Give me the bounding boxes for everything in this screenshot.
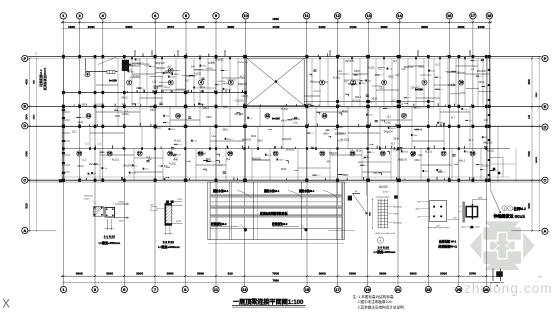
svg-text:QL2: QL2 xyxy=(418,155,423,157)
svg-text:3Ф18: 3Ф18 xyxy=(323,133,329,136)
svg-text:2Ф22: 2Ф22 xyxy=(418,65,424,68)
svg-text:KL7: KL7 xyxy=(240,77,245,79)
svg-text:18: 18 xyxy=(168,152,172,156)
svg-text:2: 2 xyxy=(128,81,130,85)
svg-text:2.图中未注明板厚100.: 2.图中未注明板厚100. xyxy=(358,299,393,304)
svg-text:KL5(1): KL5(1) xyxy=(425,151,432,153)
svg-text:10: 10 xyxy=(243,13,248,18)
svg-text:X: X xyxy=(2,299,10,311)
svg-text:16: 16 xyxy=(108,152,112,156)
svg-text:QL2: QL2 xyxy=(338,71,343,73)
svg-text:26: 26 xyxy=(484,287,489,292)
svg-text:Ф8@2: Ф8@2 xyxy=(173,73,180,76)
svg-text:17: 17 xyxy=(138,152,142,156)
svg-text:柱间M-2: 柱间M-2 xyxy=(514,206,526,211)
svg-text:12: 12 xyxy=(335,13,340,18)
svg-text:L=梁宽+600mm: L=梁宽+600mm xyxy=(158,244,180,249)
svg-text:3000: 3000 xyxy=(106,272,113,276)
svg-text:3900: 3900 xyxy=(379,272,386,276)
svg-text:1830: 1830 xyxy=(68,25,75,29)
svg-text:250x: 250x xyxy=(202,66,206,68)
svg-text:3600: 3600 xyxy=(319,272,326,276)
svg-text:3090: 3090 xyxy=(381,25,388,29)
svg-text:KL5(1): KL5(1) xyxy=(174,141,181,143)
svg-text:4Ф14: 4Ф14 xyxy=(150,109,156,112)
svg-text:4Ф14: 4Ф14 xyxy=(78,121,84,124)
svg-text:60x5: 60x5 xyxy=(515,214,526,219)
svg-text:KL3(2): KL3(2) xyxy=(169,164,176,166)
svg-text:3000: 3000 xyxy=(349,272,356,276)
svg-text:250x500: 250x500 xyxy=(286,149,296,151)
svg-text:KL7: KL7 xyxy=(202,154,207,156)
svg-text:4Ф14: 4Ф14 xyxy=(199,86,205,89)
svg-text:KL5(1): KL5(1) xyxy=(154,128,161,130)
svg-text:15: 15 xyxy=(305,287,310,292)
svg-text:250x: 250x xyxy=(361,83,365,85)
svg-text:Ф8@100: Ф8@100 xyxy=(398,158,408,161)
svg-text:18: 18 xyxy=(471,152,475,156)
svg-text:h=150: h=150 xyxy=(109,78,117,82)
svg-text:KL5(1): KL5(1) xyxy=(384,122,391,124)
svg-text:zhulong.com: zhulong.com xyxy=(464,281,553,296)
svg-text:KL7: KL7 xyxy=(393,61,398,63)
svg-text:台阶配筋 W-1: 台阶配筋 W-1 xyxy=(439,238,457,243)
svg-text:13: 13 xyxy=(366,13,371,18)
svg-text:KL3(2): KL3(2) xyxy=(482,166,489,168)
svg-text:KL5(1): KL5(1) xyxy=(353,100,360,102)
svg-text:2360: 2360 xyxy=(458,25,465,29)
svg-text:Ф8@100: Ф8@100 xyxy=(242,138,252,141)
svg-text:910: 910 xyxy=(228,272,233,276)
svg-text:3Ф18: 3Ф18 xyxy=(82,104,88,107)
svg-text:8: 8 xyxy=(383,81,385,85)
svg-text:Ф8@200: Ф8@200 xyxy=(393,206,403,209)
svg-text:17: 17 xyxy=(471,13,476,18)
svg-text:KL3(2): KL3(2) xyxy=(368,67,375,69)
svg-text:3100: 3100 xyxy=(319,25,326,29)
svg-text:2Ф22: 2Ф22 xyxy=(342,174,348,177)
svg-text:L=梁宽+300mm: L=梁宽+300mm xyxy=(374,249,396,254)
svg-text:KL7: KL7 xyxy=(186,81,191,83)
svg-text:2640: 2640 xyxy=(26,114,29,120)
svg-text:QL2: QL2 xyxy=(223,107,228,109)
svg-text:250x500: 250x500 xyxy=(186,76,196,78)
svg-text:KL3(2): KL3(2) xyxy=(95,105,102,107)
svg-text:KL5(1): KL5(1) xyxy=(122,114,129,116)
svg-text:注: 1.本图标高为结构标高.: 注: 1.本图标高为结构标高. xyxy=(353,294,395,299)
svg-text:5250: 5250 xyxy=(126,25,133,29)
svg-text:Ф8@200: Ф8@200 xyxy=(393,222,403,225)
svg-text:KL7: KL7 xyxy=(469,140,474,142)
svg-text:17: 17 xyxy=(402,114,406,118)
svg-text:KL5(1): KL5(1) xyxy=(112,159,119,161)
svg-text:KL3(2): KL3(2) xyxy=(194,73,201,75)
svg-text:3600: 3600 xyxy=(76,272,83,276)
svg-text:Ф8@1: Ф8@1 xyxy=(390,127,397,130)
svg-text:9: 9 xyxy=(87,72,89,76)
svg-text:E: E xyxy=(544,104,547,109)
svg-text:6: 6 xyxy=(170,69,172,73)
svg-text:250x500: 250x500 xyxy=(89,164,99,166)
svg-text:1-1 5:10: 1-1 5:10 xyxy=(104,234,116,238)
svg-text:4Ф14: 4Ф14 xyxy=(415,207,421,210)
svg-text:QL2: QL2 xyxy=(72,131,77,133)
svg-text:2Ф16: 2Ф16 xyxy=(414,159,420,162)
svg-text:4Ф14: 4Ф14 xyxy=(479,81,485,84)
svg-text:KL7: KL7 xyxy=(344,82,349,84)
svg-text:砼梁做法M-2: 砼梁做法M-2 xyxy=(271,222,288,226)
svg-text:4800: 4800 xyxy=(26,79,29,85)
svg-text:4Ф14: 4Ф14 xyxy=(397,103,403,106)
svg-text:250x500: 250x500 xyxy=(457,73,467,75)
svg-text:3Ф18: 3Ф18 xyxy=(354,70,360,73)
svg-text:22: 22 xyxy=(321,152,325,156)
svg-text:3Ф18: 3Ф18 xyxy=(176,220,182,223)
svg-text:2Ф16: 2Ф16 xyxy=(356,150,362,153)
svg-text:3: 3 xyxy=(170,81,172,85)
svg-text:Ф8@200: Ф8@200 xyxy=(483,141,493,144)
svg-text:3Ф18: 3Ф18 xyxy=(372,97,378,100)
svg-text:2330: 2330 xyxy=(88,25,95,29)
svg-text:7500: 7500 xyxy=(272,279,279,283)
svg-text:4Ф14: 4Ф14 xyxy=(115,115,121,118)
svg-text:2Ф16: 2Ф16 xyxy=(417,128,423,131)
svg-text:14: 14 xyxy=(397,13,402,18)
svg-text:3Ф18: 3Ф18 xyxy=(393,138,399,141)
svg-text:140: 140 xyxy=(528,114,531,119)
svg-text:Ф8@200: Ф8@200 xyxy=(282,138,292,141)
svg-text:D: D xyxy=(544,124,547,129)
svg-text:5400: 5400 xyxy=(528,151,531,157)
svg-text:KL5(1): KL5(1) xyxy=(208,63,215,65)
svg-text:2Ф16: 2Ф16 xyxy=(144,63,150,66)
svg-text:KZ1: KZ1 xyxy=(122,104,127,106)
svg-text:E: E xyxy=(23,104,26,109)
svg-text:(砼梁配筋W-1): (砼梁配筋W-1) xyxy=(438,243,457,248)
svg-text:≤60: ≤60 xyxy=(538,276,543,279)
svg-text:WKL2: WKL2 xyxy=(459,161,466,163)
svg-text:Ф8@1: Ф8@1 xyxy=(227,138,234,141)
svg-text:6: 6 xyxy=(321,81,323,85)
svg-text:16: 16 xyxy=(447,13,452,18)
svg-text:4Ф12: 4Ф12 xyxy=(383,190,389,193)
svg-text:4Ф14: 4Ф14 xyxy=(342,110,348,113)
svg-text:KL3(2): KL3(2) xyxy=(241,96,248,98)
svg-text:3100: 3100 xyxy=(350,25,357,29)
svg-text:QL2: QL2 xyxy=(387,116,392,118)
svg-text:17: 17 xyxy=(335,287,340,292)
svg-text:WKL2: WKL2 xyxy=(121,97,128,99)
svg-text:3.其余做法见结构设计总说明.: 3.其余做法见结构设计总说明. xyxy=(358,304,405,309)
svg-text:刷防水涂M-1: 刷防水涂M-1 xyxy=(298,189,315,193)
svg-text:KL12(3): KL12(3) xyxy=(235,100,243,102)
svg-text:2960: 2960 xyxy=(227,25,234,29)
svg-text:KL7: KL7 xyxy=(338,141,343,143)
svg-text:KL5(1): KL5(1) xyxy=(333,77,340,79)
svg-text:3900: 3900 xyxy=(136,272,143,276)
svg-text:1500: 1500 xyxy=(33,114,35,120)
svg-text:刷防水涂M-1: 刷防水涂M-1 xyxy=(212,189,229,193)
svg-text:20: 20 xyxy=(228,152,232,156)
svg-text:KL5(1): KL5(1) xyxy=(133,76,140,78)
svg-text:C: C xyxy=(23,178,26,183)
svg-text:1640: 1640 xyxy=(478,25,485,29)
svg-text:KL7: KL7 xyxy=(451,117,456,119)
svg-text:14: 14 xyxy=(176,114,180,118)
svg-text:KL7: KL7 xyxy=(391,143,396,145)
svg-text:250x500: 250x500 xyxy=(234,114,244,116)
svg-text:KL5(1): KL5(1) xyxy=(487,151,494,153)
svg-text:2Ф12: 2Ф12 xyxy=(84,198,90,201)
svg-text:KZ1: KZ1 xyxy=(373,173,378,175)
svg-text:5: 5 xyxy=(230,81,232,85)
svg-text:Ф8@200: Ф8@200 xyxy=(156,67,166,70)
svg-text:21: 21 xyxy=(274,152,278,156)
svg-text:2Ф12: 2Ф12 xyxy=(177,198,183,201)
svg-text:13: 13 xyxy=(242,287,247,292)
svg-text:25: 25 xyxy=(457,287,462,292)
svg-text:9: 9 xyxy=(424,81,426,85)
svg-text:4Ф14: 4Ф14 xyxy=(281,119,287,122)
svg-text:Ф8@200: Ф8@200 xyxy=(84,195,94,198)
svg-text:伸缩缝做法: 伸缩缝做法 xyxy=(493,213,514,219)
svg-text:WKL2: WKL2 xyxy=(165,73,171,75)
svg-text:KL3(: KL3( xyxy=(431,71,436,73)
svg-text:刷防水涂M-1: 刷防水涂M-1 xyxy=(263,189,280,193)
svg-text:16: 16 xyxy=(323,114,327,118)
svg-text:10: 10 xyxy=(459,81,463,85)
svg-text:L=梁宽+600mm: L=梁宽+600mm xyxy=(98,240,120,245)
svg-text:250x: 250x xyxy=(466,151,470,153)
svg-text:3000: 3000 xyxy=(440,272,447,276)
svg-text:QL2: QL2 xyxy=(226,159,231,161)
svg-text:3600: 3600 xyxy=(167,272,174,276)
svg-text:4980: 4980 xyxy=(421,25,428,29)
svg-text:WKL2: WKL2 xyxy=(77,166,84,168)
svg-text:250x500: 250x500 xyxy=(337,134,347,136)
svg-text:15: 15 xyxy=(381,152,385,156)
svg-text:Ф8@100: Ф8@100 xyxy=(329,152,339,155)
svg-text:250x500: 250x500 xyxy=(345,61,355,63)
svg-text:一层顶梁连接平面图1:100: 一层顶梁连接平面图1:100 xyxy=(233,298,304,306)
svg-text:KL5(: KL5( xyxy=(131,65,136,67)
svg-text:2Ф16: 2Ф16 xyxy=(281,168,287,171)
svg-text:17: 17 xyxy=(442,152,446,156)
svg-text:6100: 6100 xyxy=(273,25,280,29)
svg-text:3Ф16: 3Ф16 xyxy=(119,219,125,222)
svg-text:KL7: KL7 xyxy=(395,75,400,77)
svg-text:1240: 1240 xyxy=(536,92,538,98)
svg-text:5000: 5000 xyxy=(26,203,29,209)
svg-text:5400: 5400 xyxy=(26,151,29,157)
svg-text:3900: 3900 xyxy=(197,272,204,276)
svg-text:2Ф22: 2Ф22 xyxy=(388,75,394,78)
svg-text:2Ф16: 2Ф16 xyxy=(206,116,212,119)
svg-text:Ф8@200: Ф8@200 xyxy=(384,131,394,134)
svg-text:15: 15 xyxy=(78,152,82,156)
svg-text:18: 18 xyxy=(487,13,492,18)
svg-text:砼梁做法M-3: 砼梁做法M-3 xyxy=(210,222,227,226)
svg-text:2980: 2980 xyxy=(198,25,205,29)
svg-text:KL7: KL7 xyxy=(391,100,396,102)
svg-text:KL3(: KL3( xyxy=(368,115,373,117)
svg-text:KZ1: KZ1 xyxy=(150,106,155,108)
svg-text:5000: 5000 xyxy=(528,203,531,209)
svg-text:Ф8@200: Ф8@200 xyxy=(238,83,248,86)
svg-text:h=100: h=100 xyxy=(272,117,280,121)
svg-text:A: A xyxy=(23,228,26,233)
svg-text:4Ф14: 4Ф14 xyxy=(251,135,257,138)
svg-text:Ф8@100: Ф8@100 xyxy=(155,62,165,65)
svg-text:1500: 1500 xyxy=(272,17,279,21)
svg-text:M: M xyxy=(496,286,498,288)
svg-text:3600: 3600 xyxy=(410,272,417,276)
svg-text:2Ф16: 2Ф16 xyxy=(393,212,399,215)
svg-text:3070: 3070 xyxy=(167,25,174,29)
svg-text:250x500: 250x500 xyxy=(291,119,301,121)
svg-text:D: D xyxy=(23,123,26,128)
svg-text:C: C xyxy=(544,178,547,183)
svg-text:2750: 2750 xyxy=(469,272,476,276)
svg-text:250x500: 250x500 xyxy=(123,165,133,167)
svg-text:WKL2: WKL2 xyxy=(355,97,362,99)
svg-text:13: 13 xyxy=(87,114,91,118)
svg-text:15: 15 xyxy=(266,114,270,118)
svg-text:14100: 14100 xyxy=(536,156,538,163)
svg-text:3Ф18: 3Ф18 xyxy=(119,200,125,203)
svg-text:250x500: 250x500 xyxy=(215,59,225,61)
svg-text:23: 23 xyxy=(351,152,355,156)
svg-text:4800: 4800 xyxy=(528,79,531,85)
svg-text:QL2: QL2 xyxy=(379,88,384,90)
svg-text:3Ф18: 3Ф18 xyxy=(222,129,228,132)
svg-text:2Ф16: 2Ф16 xyxy=(257,139,263,142)
svg-text:7500: 7500 xyxy=(272,272,279,276)
svg-text:KL7: KL7 xyxy=(436,64,441,66)
svg-text:19: 19 xyxy=(365,287,370,292)
svg-text:250x500: 250x500 xyxy=(410,87,420,89)
svg-text:KL5(1): KL5(1) xyxy=(281,109,288,111)
svg-text:4: 4 xyxy=(200,81,202,85)
svg-text:250x: 250x xyxy=(413,135,417,137)
svg-text:2-2 5:10: 2-2 5:10 xyxy=(163,240,175,244)
svg-text:A: A xyxy=(544,229,547,234)
svg-text:21: 21 xyxy=(396,287,401,292)
svg-text:250x500: 250x500 xyxy=(477,71,487,73)
svg-text:23: 23 xyxy=(426,287,431,292)
svg-text:1-3 5:10: 1-3 5:10 xyxy=(378,245,390,249)
svg-text:板顶标高同相邻梁顶/板: 板顶标高同相邻梁顶/板 xyxy=(260,211,288,215)
svg-text:WKL2: WKL2 xyxy=(203,108,210,110)
svg-text:Ф8@2: Ф8@2 xyxy=(439,122,446,125)
svg-text:板顶标高加600:5: 板顶标高加600:5 xyxy=(42,67,47,90)
